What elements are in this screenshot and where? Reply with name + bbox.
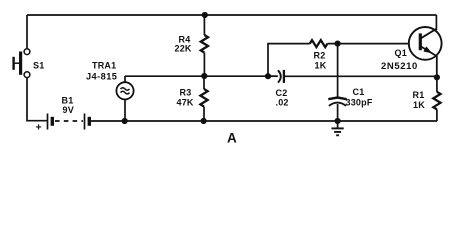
svg-text:22K: 22K xyxy=(175,43,192,53)
junction R2 right / C1 top xyxy=(335,41,341,47)
resistor R2 xyxy=(310,40,420,47)
wire S1 top lead xyxy=(26,15,28,49)
wire top rail xyxy=(27,14,436,16)
svg-text:1K: 1K xyxy=(413,100,425,110)
resistor R4 xyxy=(201,15,208,76)
junction R4 top xyxy=(202,12,208,18)
battery B1 xyxy=(48,114,90,130)
svg-text:B1: B1 xyxy=(62,96,74,106)
resistor R1 xyxy=(433,77,440,121)
junction C1 bottom / ground xyxy=(335,118,341,124)
svg-text:C2: C2 xyxy=(276,88,288,98)
svg-text:S1: S1 xyxy=(33,61,44,71)
ground xyxy=(332,121,344,135)
svg-text:R2: R2 xyxy=(314,50,326,60)
svg-text:R3: R3 xyxy=(180,88,192,98)
junction R3 bottom xyxy=(201,118,207,124)
wire C2 junction up to R2 xyxy=(268,44,310,77)
capacitor C2 xyxy=(268,70,437,83)
svg-text:+: + xyxy=(36,122,42,134)
svg-text:R1: R1 xyxy=(413,90,425,100)
switch S1 xyxy=(14,49,30,78)
svg-text:.02: .02 xyxy=(276,98,289,108)
svg-text:330pF: 330pF xyxy=(346,98,373,108)
svg-text:47K: 47K xyxy=(177,97,194,107)
resistor R3 xyxy=(200,76,207,121)
svg-text:2N5210: 2N5210 xyxy=(381,61,418,72)
svg-text:J4-815: J4-815 xyxy=(86,72,117,82)
transistor Q1 xyxy=(409,27,442,78)
capacitor C1 xyxy=(328,44,346,121)
wire mid rail xyxy=(125,75,278,77)
junction R3 top xyxy=(201,73,207,79)
svg-text:C1: C1 xyxy=(353,87,365,97)
junction C2 left xyxy=(265,73,271,79)
svg-text:9V: 9V xyxy=(63,105,74,115)
junction emitter / mid rail right xyxy=(434,74,440,80)
junction TRA1 bottom xyxy=(122,118,128,124)
transducer TRA1 xyxy=(116,76,133,121)
wire bottom rail xyxy=(91,120,437,122)
svg-text:1K: 1K xyxy=(315,61,327,71)
svg-text:Q1: Q1 xyxy=(395,48,407,58)
wire collector to top rail xyxy=(435,15,437,30)
wire S1 bottom lead to battery xyxy=(27,78,47,121)
svg-text:TRA1: TRA1 xyxy=(92,61,116,71)
svg-text:A: A xyxy=(227,131,237,146)
